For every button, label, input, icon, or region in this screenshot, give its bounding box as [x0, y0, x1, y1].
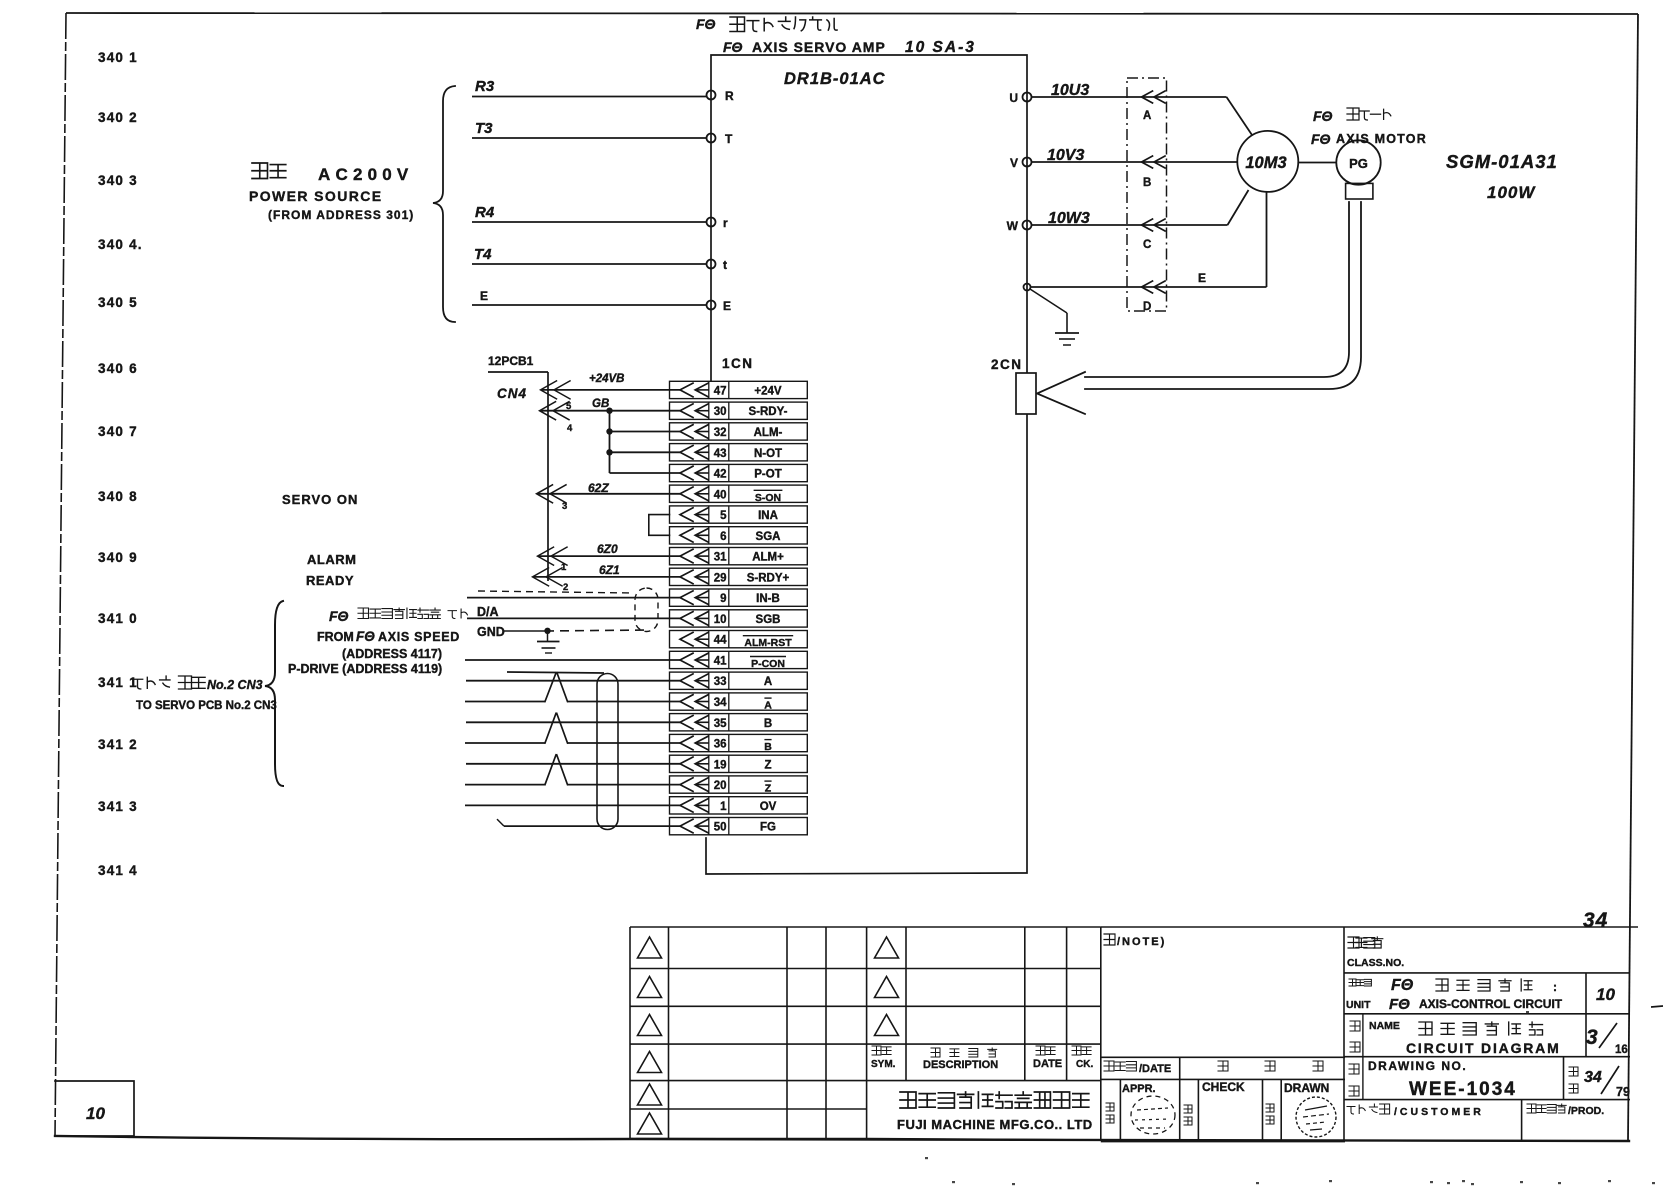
label DR1B-01AC [784, 70, 886, 88]
servo amp U1 box outline [706, 55, 1027, 874]
svg-text:T3: T3 [475, 120, 493, 137]
wire 62Z pin40 S-ON to CN4 pin3 [537, 481, 681, 512]
ground symbol at GND wire [537, 631, 560, 653]
label ALARM [307, 552, 356, 567]
svg-text:IN-B: IN-B [756, 593, 780, 605]
svg-text:N-OT: N-OT [754, 448, 782, 460]
terminal T [707, 132, 734, 146]
svg-text:62Z: 62Z [588, 481, 609, 495]
svg-text:P-CON: P-CON [751, 658, 785, 670]
wire 6Z1 pin29 S-RDY+ to CN4 pin2 [533, 563, 681, 593]
svg-text:340 6: 340 6 [98, 361, 138, 376]
svg-text:340 5: 340 5 [98, 295, 138, 310]
label DRAWN and stamp [1266, 1081, 1336, 1137]
svg-text:AXIS-CONTROL CIRCUIT: AXIS-CONTROL CIRCUIT [1419, 997, 1563, 1011]
svg-text:33: 33 [714, 676, 727, 688]
terminal R [707, 89, 735, 103]
wire R3 [472, 78, 707, 97]
brace power source group [433, 86, 455, 322]
svg-text:R: R [725, 89, 734, 103]
svg-text:340 8: 340 8 [98, 489, 138, 504]
svg-text:ALM-: ALM- [754, 427, 783, 439]
svg-text:P-DRIVE (ADDRESS 4119): P-DRIVE (ADDRESS 4119) [288, 662, 442, 676]
svg-text:3: 3 [1586, 1026, 1598, 1049]
wire pin20 /Z with twist [465, 755, 680, 785]
wire T4 [472, 246, 707, 264]
svg-text:AC200V: AC200V [318, 165, 413, 184]
svg-text:FΘ: FΘ [1311, 131, 1331, 147]
svg-text:FΘ: FΘ [723, 39, 743, 55]
brace to servo PCB group [265, 601, 283, 786]
svg-text:READY: READY [306, 573, 354, 588]
svg-text:10W3: 10W3 [1048, 210, 1090, 227]
handwritten page 34 [1583, 909, 1608, 932]
wire W phase 10W3 [1032, 190, 1249, 231]
bottom left sheet box 10 [55, 1081, 134, 1136]
svg-text:SGA: SGA [756, 531, 781, 543]
svg-text:SGM-01A31: SGM-01A31 [1446, 151, 1558, 172]
sheet 3/16 [1586, 1023, 1628, 1056]
bottom scan speckle dots [925, 1011, 1655, 1185]
svg-text:D: D [1143, 301, 1151, 313]
jumper INA-SGA pins 5-6 [649, 515, 670, 536]
svg-text:30: 30 [714, 406, 727, 418]
motor M 10M3 [1237, 131, 1298, 192]
svg-text:T: T [725, 132, 733, 146]
svg-text:D/A: D/A [477, 605, 499, 619]
svg-text:/PROD.: /PROD. [1568, 1105, 1604, 1117]
label motor JP FΘ軸モータ [1313, 108, 1391, 124]
svg-text:10: 10 [714, 614, 727, 626]
shield dashed drain to pin9 pair [478, 591, 633, 593]
stamp row cells APPR CHECK DRAWN [1101, 1079, 1345, 1141]
svg-text:Z: Z [765, 783, 772, 795]
wire pin42 P-OT [610, 472, 681, 474]
label CN4 [497, 386, 527, 401]
wire pin19 Z [466, 763, 680, 765]
svg-text:(ADDRESS 4117): (ADDRESS 4117) [342, 647, 442, 661]
svg-text:CHECK: CHECK [1202, 1080, 1245, 1094]
label power source JP 電源 AC200V [252, 163, 413, 184]
wire V phase 10V3 [1032, 147, 1238, 168]
svg-text:E: E [1198, 271, 1206, 285]
svg-text:NAME: NAME [1369, 1020, 1400, 1032]
wire pin33 A [466, 680, 680, 682]
svg-text:2CN: 2CN [991, 357, 1023, 372]
svg-text:6Z0: 6Z0 [597, 542, 618, 556]
svg-text:FΘ: FΘ [696, 16, 716, 32]
svg-text:GND: GND [477, 625, 505, 639]
label CHECK [1184, 1080, 1245, 1125]
svg-text:S-RDY-: S-RDY- [749, 406, 788, 418]
svg-text:FΘ: FΘ [1313, 108, 1333, 124]
net common vertical pin30-42 [606, 411, 612, 473]
svg-text:6Z1: 6Z1 [599, 563, 620, 577]
svg-text:DATE: DATE [1033, 1058, 1062, 1070]
label ADDRESS 4117 [342, 647, 442, 661]
ground symbol at amp E-node [1030, 289, 1079, 345]
svg-text:+24V: +24V [754, 385, 782, 397]
svg-text:CN4: CN4 [497, 386, 527, 401]
connector 2CN [991, 357, 1036, 414]
title block revision table right [867, 927, 1101, 1141]
label FΘ AXIS SERVO AMP 10 SA-3 [723, 39, 976, 56]
svg-text:341 2: 341 2 [98, 737, 138, 752]
svg-text:/DATE: /DATE [1139, 1063, 1171, 1075]
svg-text:DR1B-01AC: DR1B-01AC [784, 70, 886, 88]
svg-text:42: 42 [714, 469, 727, 481]
svg-text:10: 10 [1596, 985, 1615, 1004]
terminal strip dashed box A-D [1127, 78, 1167, 313]
svg-text:50: 50 [714, 822, 727, 834]
wire E input [472, 289, 707, 305]
svg-text:3: 3 [562, 501, 567, 512]
svg-text:FΘ: FΘ [356, 629, 375, 644]
svg-text:35: 35 [714, 718, 727, 730]
svg-text:20: 20 [714, 780, 727, 792]
shield drain top wire pairs [507, 672, 604, 673]
wire +24VB pin47 to CN4 [541, 373, 681, 399]
wire GB pin30 to CN4 pin5 [540, 398, 681, 434]
wire pin43 N-OT [610, 451, 681, 453]
wire R4 [472, 204, 707, 222]
connector CN4 stem [547, 372, 549, 581]
svg-text:31: 31 [714, 552, 727, 564]
svg-text:FROM: FROM [317, 630, 354, 644]
svg-text:E: E [723, 299, 731, 313]
svg-text:(FROM ADDRESS 301): (FROM ADDRESS 301) [268, 208, 414, 222]
header SYM DESCRIPTION DATE CK [871, 1046, 1093, 1071]
revision triangles right column [875, 937, 899, 1036]
svg-text:GB: GB [592, 398, 609, 410]
svg-text:34: 34 [1584, 1069, 1602, 1086]
wire pin36 /B with twist [465, 713, 680, 743]
svg-text:16: 16 [1615, 1044, 1628, 1056]
label FROM FΘ AXIS SPEED [317, 629, 460, 644]
svg-text:4: 4 [567, 423, 573, 434]
svg-text:1CN: 1CN [722, 356, 754, 371]
label P-DRIVE ADDRESS 4119 [288, 662, 442, 676]
svg-text:r: r [723, 216, 728, 230]
svg-text:29: 29 [714, 572, 727, 584]
svg-text:SYM.: SYM. [871, 1059, 896, 1070]
label speed command JP FΘ軸速度指令出力より [329, 608, 467, 624]
svg-text:R4: R4 [475, 204, 495, 221]
svg-text:WEE-1034: WEE-1034 [1409, 1079, 1517, 1100]
terminal E [707, 299, 732, 313]
svg-text:FUJI MACHINE MFG.CO.. LTD: FUJI MACHINE MFG.CO.. LTD [897, 1117, 1093, 1132]
svg-text:ALARM: ALARM [307, 552, 356, 567]
terminal r [707, 216, 729, 230]
label CLASS.NO. [1347, 937, 1404, 969]
svg-text:ALM-RST: ALM-RST [744, 637, 792, 649]
svg-text:t: t [723, 258, 727, 272]
svg-text:CK.: CK. [1076, 1059, 1093, 1070]
svg-text:/NOTE): /NOTE) [1117, 936, 1166, 948]
svg-text:DRAWN: DRAWN [1284, 1081, 1329, 1095]
svg-text::: : [1553, 980, 1557, 994]
svg-text:A: A [764, 700, 772, 712]
wire pin41 P-CON [465, 659, 680, 661]
svg-text:1: 1 [720, 801, 727, 813]
svg-text:12PCB1: 12PCB1 [488, 354, 534, 368]
wire GND shield drain dashed [477, 625, 650, 639]
svg-text:34: 34 [714, 697, 727, 709]
label SERVO ON [282, 492, 358, 507]
svg-text:DESCRIPTION: DESCRIPTION [923, 1059, 998, 1071]
title right section grid [1101, 927, 1638, 1141]
wire pin34 /A with twist [465, 673, 680, 702]
svg-text:AXIS SPEED: AXIS SPEED [378, 630, 460, 644]
svg-text:340 2: 340 2 [98, 110, 138, 125]
svg-text:2: 2 [563, 582, 568, 593]
svg-text:CIRCUIT DIAGRAM: CIRCUIT DIAGRAM [1406, 1040, 1561, 1056]
terminal t [707, 258, 728, 272]
label READY [306, 573, 354, 588]
label CUSTOMER [1347, 1104, 1604, 1118]
svg-text:B: B [1143, 177, 1151, 189]
svg-text:44: 44 [714, 635, 727, 647]
svg-text:9: 9 [720, 593, 726, 605]
svg-text:41: 41 [714, 656, 727, 668]
wire U phase 10U3 [1032, 82, 1253, 135]
label NAME CIRCUIT DIAGRAM [1350, 1020, 1561, 1056]
svg-text:340 3: 340 3 [98, 173, 138, 188]
date row cells [1101, 1057, 1345, 1079]
terminal E-node motor ground [1024, 284, 1031, 291]
svg-text:INA: INA [758, 510, 778, 522]
shield capsule encoder pairs [597, 674, 618, 830]
svg-text:+24VB: +24VB [589, 373, 624, 385]
svg-text:AXIS MOTOR: AXIS MOTOR [1336, 132, 1427, 146]
label POWER SOURCE [249, 188, 382, 204]
terminal U [1009, 91, 1031, 105]
svg-text:A: A [1143, 110, 1151, 122]
label FROM ADDRESS 301 [268, 208, 414, 222]
shield capsule pins 9-10 [635, 588, 658, 632]
label APPR and approval stamp [1106, 1083, 1175, 1134]
label 1CN [722, 356, 754, 371]
svg-text:340 7: 340 7 [98, 424, 138, 439]
svg-text:UNIT: UNIT [1346, 999, 1371, 1011]
svg-text:79: 79 [1616, 1085, 1630, 1099]
wire pin32 ALM- [610, 431, 681, 433]
svg-text:340 4.: 340 4. [98, 237, 143, 252]
svg-text:/CUSTOMER: /CUSTOMER [1394, 1106, 1484, 1118]
svg-text:10U3: 10U3 [1051, 82, 1089, 99]
connector 1CN pin table [670, 381, 808, 835]
wire motor ground E [1031, 193, 1267, 294]
sheet number 10 [1596, 985, 1663, 1007]
svg-text:19: 19 [714, 759, 727, 771]
encoder PG [1298, 140, 1381, 184]
svg-text:40: 40 [714, 489, 727, 501]
label 12PCB1 [488, 354, 548, 372]
label 100W [1487, 183, 1536, 202]
label servo amp JP FΘ 軸サーボアンプ [696, 16, 837, 32]
svg-text:6: 6 [720, 531, 726, 543]
svg-text:DRAWING NO.: DRAWING NO. [1368, 1059, 1467, 1073]
wire D/A to pin9 IN-B [467, 598, 680, 619]
svg-text:10V3: 10V3 [1047, 147, 1084, 164]
title block revision table left [630, 927, 867, 1139]
wire 6Z0 pin31 ALM+ to CN4 pin1 [538, 542, 681, 573]
svg-text:B: B [764, 741, 772, 753]
svg-text:C: C [1143, 239, 1151, 251]
svg-text:34: 34 [1583, 909, 1608, 932]
svg-text:V: V [1010, 156, 1018, 170]
svg-text:32: 32 [714, 427, 727, 439]
svg-text:Z: Z [764, 759, 771, 771]
svg-text:CLASS.NO.: CLASS.NO. [1347, 957, 1404, 969]
svg-text:36: 36 [714, 739, 727, 751]
svg-text:APPR.: APPR. [1122, 1083, 1156, 1095]
svg-text:P-OT: P-OT [754, 469, 781, 481]
svg-text:R3: R3 [475, 78, 495, 95]
svg-text:10M3: 10M3 [1245, 154, 1286, 172]
svg-text:FG: FG [760, 822, 776, 834]
svg-text:ALM+: ALM+ [752, 552, 784, 564]
svg-text:FΘ: FΘ [1391, 977, 1414, 994]
svg-text:B: B [764, 718, 772, 730]
svg-text:TO SERVO PCB No.2 CN3: TO SERVO PCB No.2 CN3 [136, 700, 277, 712]
svg-text:10: 10 [86, 1104, 105, 1123]
revision triangles left column [638, 937, 662, 1134]
wire pin35 B [466, 721, 680, 723]
svg-text:PG: PG [1349, 156, 1368, 171]
svg-text:AXIS SERVO AMP: AXIS SERVO AMP [752, 39, 886, 55]
svg-text:A: A [764, 676, 772, 688]
terminal V [1010, 156, 1032, 170]
svg-text:5: 5 [566, 401, 572, 412]
wire pin50 FG [497, 819, 680, 826]
label FΘ AXIS MOTOR [1311, 131, 1427, 147]
svg-text:47: 47 [714, 385, 727, 397]
company name 富士機械製造株式会社 [897, 1092, 1093, 1132]
label servo pcb JP サーボ基板No.2 CN3 [132, 676, 262, 692]
svg-text:FΘ: FΘ [1389, 996, 1410, 1013]
svg-text:SGB: SGB [756, 614, 781, 626]
encoder connector box [1346, 183, 1373, 199]
label UNIT FΘ AXIS-CONTROL CIRCUIT [1346, 977, 1563, 1013]
svg-text:POWER SOURCE: POWER SOURCE [249, 188, 382, 204]
label SGM-01A31 [1446, 151, 1558, 172]
svg-text:E: E [480, 289, 488, 303]
svg-text:340 9: 340 9 [98, 550, 138, 565]
svg-text:FΘ: FΘ [329, 608, 349, 624]
svg-text:341 1: 341 1 [98, 675, 138, 690]
svg-text:SERVO ON: SERVO ON [282, 492, 358, 507]
svg-text:S-ON: S-ON [755, 492, 781, 504]
wire pin1 OV [465, 804, 680, 806]
svg-text:T4: T4 [474, 246, 492, 263]
svg-text:OV: OV [760, 801, 777, 813]
svg-text:341 4: 341 4 [98, 863, 138, 878]
svg-text:341 3: 341 3 [98, 799, 138, 814]
wire T3 [472, 120, 707, 138]
svg-text:10 SA-3: 10 SA-3 [905, 39, 976, 56]
wire pin10 SGB [467, 617, 680, 619]
page 34/79 [1569, 1066, 1630, 1099]
note area label 注/NOTE [1104, 934, 1166, 948]
svg-text:340 1: 340 1 [98, 50, 138, 65]
label DRAWING NO. WEE-1034 [1349, 1059, 1517, 1100]
svg-text:U: U [1009, 91, 1018, 105]
encoder cable to 2CN [1037, 202, 1361, 414]
svg-text:W: W [1007, 219, 1019, 233]
svg-text:No.2 CN3: No.2 CN3 [207, 678, 263, 692]
label TO SERVO PCB No.2 CN3 [136, 700, 277, 712]
line number labels 3401-3414 [98, 50, 143, 878]
svg-text:341 0: 341 0 [98, 611, 138, 626]
svg-text:43: 43 [714, 448, 727, 460]
svg-text:S-RDY+: S-RDY+ [747, 572, 790, 584]
svg-text:100W: 100W [1487, 183, 1536, 202]
svg-text:5: 5 [720, 510, 727, 522]
terminal W [1007, 219, 1032, 233]
